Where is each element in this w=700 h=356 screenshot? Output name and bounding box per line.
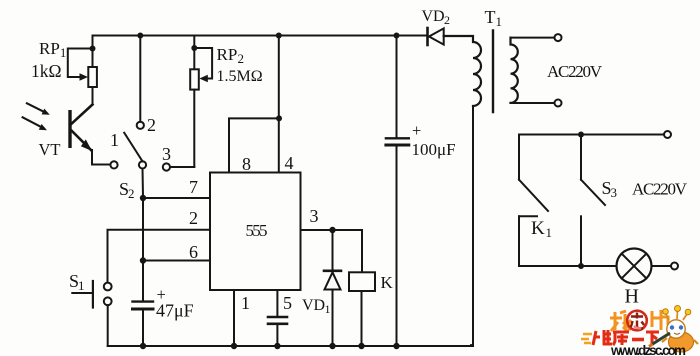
pushbutton S1 <box>72 281 111 308</box>
svg-text:VD: VD <box>422 8 445 25</box>
light arrow 2 <box>23 117 43 127</box>
node: ground junction pin 5 cap <box>274 343 280 349</box>
svg-text:2: 2 <box>147 115 156 135</box>
库 glyph (red) <box>613 332 629 345</box>
node: junction S3 top <box>578 132 584 138</box>
terminal: lamp side <box>671 263 678 270</box>
core <box>492 31 494 113</box>
下 glyph (red) <box>646 332 659 345</box>
svg-text:2: 2 <box>238 51 245 66</box>
wire: pin 3 output <box>301 230 363 272</box>
lamp H <box>617 249 679 284</box>
svg-text:3: 3 <box>310 206 319 226</box>
contact 1 <box>110 161 117 168</box>
svg-text:1: 1 <box>325 302 331 316</box>
terminal: secondary top <box>555 34 562 41</box>
node: junction S2 pole / pin 7 <box>140 195 146 201</box>
speed dashes (orange) <box>581 334 592 343</box>
node: rail junction at 100uF branch <box>394 33 400 39</box>
wire: pin 8 vertical and tie to pin 4 <box>229 118 279 172</box>
svg-text:+: + <box>412 121 421 140</box>
svg-text:1.5MΩ: 1.5MΩ <box>217 68 263 85</box>
svg-text:1: 1 <box>78 278 85 293</box>
svg-text:www.dzsc.com: www.dzsc.com <box>610 343 686 356</box>
wire: top supply rail <box>93 35 428 37</box>
svg-text:4: 4 <box>285 153 294 173</box>
svg-text:H: H <box>625 286 639 308</box>
svg-text:T: T <box>485 7 496 27</box>
wire: pin 4 from rail <box>278 36 280 173</box>
node: ground junction 100uF <box>393 343 399 349</box>
svg-text:1: 1 <box>546 225 553 240</box>
secondary (right) winding <box>511 38 518 103</box>
svg-text:5: 5 <box>283 293 292 313</box>
svg-text:2: 2 <box>444 13 450 27</box>
svg-text:7: 7 <box>189 177 198 197</box>
magnifier ring around 芯 (red) <box>627 311 647 331</box>
svg-text:555: 555 <box>246 221 268 240</box>
svg-text:1kΩ: 1kΩ <box>31 61 62 81</box>
svg-text:AC220V: AC220V <box>547 62 603 81</box>
wire: mains top feeder <box>519 134 664 136</box>
node: pin3 junction to VD1 <box>329 227 335 233</box>
wire: secondary top lead <box>511 37 555 39</box>
svg-text:1: 1 <box>241 293 250 313</box>
op-amp? IC 555 <box>210 173 301 291</box>
wire: winding to ground rail <box>471 106 473 345</box>
svg-text:VT: VT <box>39 140 61 159</box>
wire: S2 pole down to pin7/pin6 node and 47uF <box>142 169 145 301</box>
一 glyph (red) <box>632 338 644 342</box>
contact 2 <box>137 122 144 129</box>
wire: rail to contact 2 <box>139 36 141 122</box>
phototransistor VT <box>23 103 93 151</box>
svg-text:1: 1 <box>110 130 119 150</box>
terminal: mains top <box>664 131 671 138</box>
wire: contact 3 to RP2 bottom <box>170 166 194 168</box>
svg-text:8: 8 <box>242 154 251 174</box>
svg-text:47μF: 47μF <box>156 301 194 321</box>
mascot figure <box>649 306 698 353</box>
watermark logo 找芯片 / 维库一下 / www.dzsc.com <box>581 306 698 356</box>
capacitor C1 47uF <box>133 302 154 346</box>
svg-text:AC220V: AC220V <box>632 180 688 199</box>
wire: emitter to S2 contact 1 <box>92 150 110 165</box>
node: ground junction VD1 <box>329 343 335 349</box>
potentiometer RP1 <box>68 36 97 105</box>
transformer T1 <box>444 31 562 346</box>
node: rail junction at 555 pin 4 branch <box>276 33 282 39</box>
svg-text:K: K <box>531 218 545 239</box>
node: rail junction at S2 contact 2 branch <box>137 33 143 39</box>
primary (left) winding <box>444 36 481 106</box>
svg-text:RP: RP <box>39 39 60 58</box>
svg-text:K: K <box>381 273 394 292</box>
wire: pin 2 to S1 branch <box>108 230 211 283</box>
找 glyph (orange) <box>610 311 631 331</box>
svg-text:1: 1 <box>60 46 66 60</box>
svg-text:VD: VD <box>302 297 325 314</box>
relay K <box>349 272 375 346</box>
wire: pin 6 <box>143 260 210 262</box>
svg-text:1: 1 <box>496 14 503 29</box>
contact 3 <box>163 163 170 170</box>
node: junction pin 6 <box>140 257 146 263</box>
relay contact K1 <box>519 135 548 267</box>
node: ground junction pin 1 <box>231 343 237 349</box>
diode VD2 <box>428 28 444 45</box>
light arrow 1 <box>27 103 45 112</box>
svg-text:3: 3 <box>162 144 171 164</box>
svg-text:6: 6 <box>189 242 198 262</box>
芯 inside ring (dark red) <box>631 313 645 329</box>
svg-text:100μF: 100μF <box>412 140 456 159</box>
diode VD1 <box>324 230 341 346</box>
wire: pin 1 to ground <box>233 290 235 346</box>
wire: secondary bottom lead <box>511 102 555 104</box>
svg-text:3: 3 <box>611 185 618 200</box>
potentiometer RP2 <box>190 36 212 168</box>
capacitor on pin 5 <box>268 290 287 346</box>
svg-text:RP: RP <box>217 45 238 64</box>
svg-text:2: 2 <box>128 186 135 201</box>
pole contact <box>139 161 146 168</box>
switch S3 <box>581 135 605 267</box>
片 glyph (orange) <box>652 310 668 330</box>
wire: bottom ground rail <box>108 345 473 347</box>
维 glyph (red) <box>593 330 612 345</box>
node: junction S3 bottom <box>578 263 584 269</box>
blade <box>124 133 142 162</box>
wire: pin 7 <box>143 197 210 199</box>
terminal: secondary bottom <box>555 100 562 107</box>
svg-text:2: 2 <box>189 208 198 228</box>
node: pins 8-4 tie junction <box>276 115 282 121</box>
selector switch S2 <box>110 122 170 171</box>
node: ground junction relay K <box>358 343 364 349</box>
wire: lamp feeder bottom <box>519 265 617 267</box>
capacitor 100uF <box>386 36 409 347</box>
wire: S1 to ground rail <box>107 305 109 346</box>
node: ground junction 47uF <box>140 343 146 349</box>
